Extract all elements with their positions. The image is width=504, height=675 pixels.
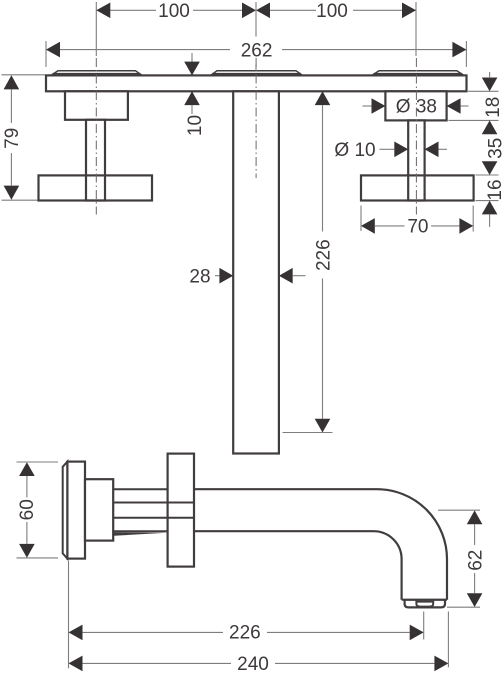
dim 226 bottom view <box>69 625 83 641</box>
dim 10 plate thickness upper arrow <box>191 53 193 62</box>
dim 70 right arrow <box>431 225 459 227</box>
aerator inner face <box>416 602 433 607</box>
side view wall escutcheon tapered edge <box>63 462 68 559</box>
svg-text:16: 16 <box>485 179 504 200</box>
dim diameter 38 left arrow <box>363 105 372 107</box>
dim diameter 10 left arrow <box>380 148 395 150</box>
svg-text:18: 18 <box>483 97 504 118</box>
aerator collar <box>405 600 445 608</box>
left handle centerline <box>95 58 97 215</box>
dim 100 left: dimension line y=10.3 <box>96 9 242 11</box>
dim 70 extension lines <box>361 206 473 232</box>
side view handle hub lines <box>168 503 194 518</box>
dim diameter 38 right arrow <box>447 98 461 114</box>
dim 79 extension lines <box>2 75 46 200</box>
svg-text:28: 28 <box>189 266 210 287</box>
spout centerline <box>255 58 257 178</box>
svg-text:100: 100 <box>158 1 190 22</box>
dim 60 lower arrow <box>26 522 28 544</box>
dim 226 outlet extension line <box>423 612 425 640</box>
dim 60 upper arrow <box>19 462 35 476</box>
svg-text:62: 62 <box>466 550 487 571</box>
right column extension lines <box>449 91 499 200</box>
svg-text:226: 226 <box>313 239 334 271</box>
svg-text:100: 100 <box>316 1 348 22</box>
svg-text:Ø 10: Ø 10 <box>334 140 375 161</box>
aerator step line <box>402 599 447 601</box>
escutcheon left on plate <box>51 71 142 76</box>
escutcheon middle on plate <box>211 71 303 76</box>
dim diameter 10 right arrow <box>425 142 439 158</box>
svg-text:70: 70 <box>407 217 428 238</box>
dim 62 extension lines <box>438 510 480 607</box>
escutcheon right on plate <box>372 71 464 76</box>
dim 16 lower arrow <box>482 201 498 215</box>
side view cross handle <box>168 454 194 567</box>
dim 35 upper arrow <box>482 120 498 134</box>
right cross handle bar <box>361 175 474 200</box>
dim 18 upper arrow <box>489 72 491 77</box>
right handle stem <box>408 120 424 200</box>
dim 226 top view <box>315 91 331 105</box>
side view lever wedge <box>114 532 167 536</box>
side view wall escutcheon body <box>67 462 85 559</box>
dim 240 bottom view <box>69 656 83 672</box>
side view sleeve <box>85 479 113 540</box>
dim 28 right arrow <box>279 268 293 284</box>
dim 100 tick extension lines <box>96 2 416 56</box>
dim 79 lower arrow <box>10 153 12 185</box>
side view spout tube curve <box>194 489 447 600</box>
dim 262 arrows <box>46 42 60 58</box>
svg-text:10: 10 <box>185 115 206 136</box>
dim 10 plate thickness lower arrow <box>184 91 200 105</box>
svg-text:35: 35 <box>485 138 504 159</box>
svg-text:79: 79 <box>2 128 23 149</box>
right handle centerline <box>415 58 417 215</box>
dim 100 middle bowtie arrows <box>242 3 256 19</box>
spout front view <box>233 91 279 453</box>
svg-text:60: 60 <box>17 499 38 520</box>
dim 100 right arrow <box>402 3 416 19</box>
dim 100 left arrow <box>96 3 110 19</box>
dim 70 left arrow <box>361 218 375 234</box>
dim 240 spout edge extension line <box>447 612 449 668</box>
dim 62 upper arrow <box>467 510 483 524</box>
dim 262: dimension line y=49.6 <box>46 41 466 70</box>
svg-text:240: 240 <box>237 654 269 675</box>
left valve body <box>65 91 128 120</box>
plate <box>46 75 467 91</box>
left handle stem <box>86 120 105 201</box>
side view spout tube and stem lines between sleeve and handle <box>113 489 167 531</box>
wall plane extension line <box>68 561 70 668</box>
dim 60 extension lines <box>17 462 59 558</box>
svg-text:Ø 38: Ø 38 <box>396 97 437 118</box>
dim 28 left arrow <box>215 275 219 277</box>
dim 62 lower arrow <box>474 573 476 593</box>
left cross handle bar <box>39 175 153 200</box>
right valve body <box>385 91 446 120</box>
dim 79 upper arrow <box>4 75 20 89</box>
dim 35 lower arrow <box>482 161 498 175</box>
dim 100 right: dimension line <box>270 9 416 11</box>
svg-text:226: 226 <box>229 623 261 644</box>
